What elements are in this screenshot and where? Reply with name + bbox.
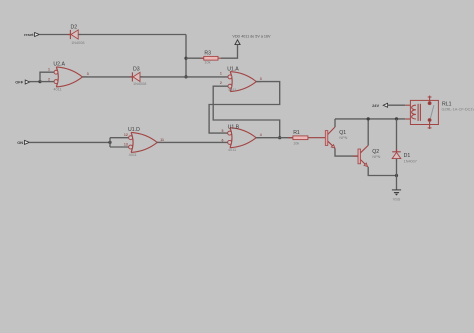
svg-text:2: 2 — [220, 81, 222, 85]
svg-text:4011: 4011 — [228, 88, 236, 92]
wire 24V rail — [335, 118, 405, 120]
port OFF — [15, 79, 30, 84]
wire Q1 emitter to Q2 base — [335, 148, 358, 156]
svg-text:4: 4 — [260, 133, 262, 137]
transistor Q1 — [325, 127, 347, 148]
wire U1D out to U1B pin6 — [157, 141, 228, 143]
wire to R3 — [186, 57, 204, 59]
wire U1D out pin stub — [157, 141, 162, 143]
wire Q2 emitter down — [368, 167, 396, 176]
svg-text:reset: reset — [24, 32, 34, 37]
wire reset to D2 — [39, 34, 70, 36]
wire U1A out pin stub — [256, 81, 261, 83]
svg-text:D2: D2 — [71, 24, 78, 30]
svg-text:2: 2 — [48, 77, 50, 81]
relay RL1 — [405, 96, 474, 129]
wire up to pin1 — [40, 72, 54, 81]
svg-text:1N4007: 1N4007 — [404, 159, 417, 163]
wire to pin2 — [40, 81, 54, 83]
port 24V — [372, 103, 388, 108]
wire D2 to corner — [78, 34, 186, 36]
node OFF junction — [38, 80, 41, 83]
svg-text:G2RL-1A-CF-DC1V: G2RL-1A-CF-DC1V — [442, 107, 474, 111]
diode D2 — [68, 24, 85, 44]
svg-text:4011: 4011 — [53, 88, 61, 92]
svg-text:12: 12 — [124, 133, 128, 137]
diode D3 — [130, 66, 147, 86]
svg-text:3: 3 — [87, 72, 89, 76]
wire D1 top — [396, 119, 398, 152]
svg-text:D1: D1 — [404, 153, 411, 159]
svg-text:5: 5 — [221, 129, 223, 133]
svg-text:D3: D3 — [133, 66, 140, 72]
resistor R1 — [288, 130, 308, 145]
wire OFF to junction — [29, 81, 40, 83]
node ON junction — [108, 141, 111, 144]
gate U1A nand — [220, 66, 262, 92]
svg-text:OFF: OFF — [15, 79, 24, 84]
wire U1A pin2 feedback from U1B out — [213, 86, 280, 138]
wire Q2 collector up — [367, 119, 369, 145]
wire U1A out feedback to U1B pin5 — [209, 82, 280, 134]
node junction gate row — [184, 75, 187, 78]
svg-text:NPN: NPN — [339, 136, 347, 140]
wire U2A out to D3 — [82, 76, 132, 78]
svg-text:R1: R1 — [293, 130, 300, 136]
svg-text:6: 6 — [221, 138, 223, 142]
svg-text:1: 1 — [48, 68, 50, 72]
resistor R3 — [201, 51, 221, 65]
svg-text:VDD 4011 de 5V a 16V: VDD 4011 de 5V a 16V — [232, 34, 271, 38]
wire U1D pin12 stub — [110, 137, 129, 139]
svg-text:10k: 10k — [204, 61, 210, 65]
supply VDD symbol — [232, 34, 271, 44]
wire U1B out to R1 — [256, 137, 293, 139]
svg-text:VSS: VSS — [393, 197, 401, 201]
svg-text:3: 3 — [260, 77, 262, 81]
svg-text:10k: 10k — [293, 141, 299, 145]
node D1 rail junction — [395, 117, 398, 120]
svg-text:U1.B: U1.B — [228, 124, 240, 130]
transistor Q2 — [353, 145, 381, 166]
svg-text:11: 11 — [160, 138, 164, 142]
wire R1 to Q1 base — [308, 137, 326, 139]
wire to U1D pins — [109, 138, 111, 147]
gate U1B nand — [221, 124, 261, 151]
ground VSS — [392, 190, 401, 202]
svg-text:1N4008: 1N4008 — [71, 41, 84, 45]
svg-text:1: 1 — [220, 71, 222, 75]
wire U1B out pin stub — [256, 137, 261, 139]
svg-text:1N4008: 1N4008 — [133, 82, 146, 86]
wire 24V to relay — [387, 104, 405, 106]
svg-text:U2.A: U2.A — [53, 61, 65, 67]
node feedback junction — [278, 136, 281, 139]
svg-text:U1.D: U1.D — [128, 127, 140, 133]
node Q2 collector rail — [367, 117, 370, 120]
svg-text:4011: 4011 — [129, 153, 137, 157]
gate U2A nand — [48, 61, 89, 91]
wire R3 to VDD riser — [221, 43, 238, 59]
node emitter D1 junction — [395, 174, 398, 177]
wire D1 bottom — [396, 159, 398, 176]
svg-text:24V: 24V — [372, 103, 379, 108]
wire D3 to U1A pin1 — [140, 76, 228, 78]
port ON — [17, 140, 29, 145]
port reset — [24, 32, 39, 37]
svg-text:R3: R3 — [204, 51, 211, 57]
wire U2A out pin stub — [82, 76, 87, 78]
wire U1D pin13 stub — [110, 146, 129, 148]
wire vertical reset drop — [185, 35, 187, 77]
wire to ground — [396, 176, 398, 190]
svg-text:ON: ON — [17, 140, 23, 145]
diode D1 — [392, 149, 417, 163]
svg-text:13: 13 — [124, 143, 128, 147]
svg-text:NPN: NPN — [372, 155, 380, 159]
wire Q1 collector up — [334, 119, 336, 127]
gate U1D nand — [124, 127, 164, 157]
svg-text:U1.A: U1.A — [227, 66, 239, 72]
node junction R3 row — [184, 57, 187, 60]
svg-text:4011: 4011 — [228, 148, 236, 152]
wire ON to junction — [29, 141, 110, 143]
